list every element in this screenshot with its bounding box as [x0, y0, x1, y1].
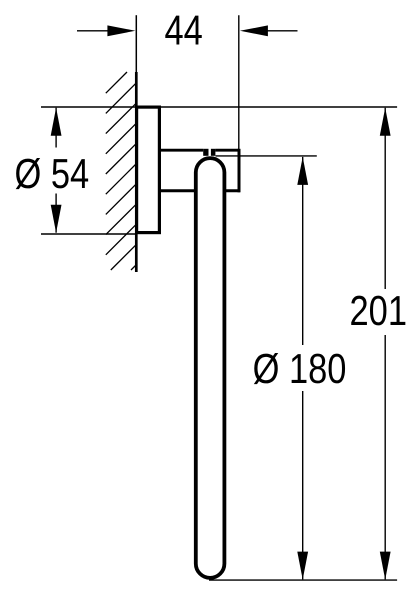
svg-text:Ø 54: Ø 54	[15, 150, 90, 197]
bottom reference line y=580	[209, 579, 397, 581]
wall plate	[137, 107, 160, 233]
arm top line	[159, 149, 203, 152]
text backgrounds	[12, 148, 90, 194]
ring top reference line y=156	[216, 155, 317, 157]
svg-text:Ø 180: Ø 180	[253, 345, 347, 392]
dim 44 left arrow	[77, 30, 112, 32]
dim line 201	[384, 108, 386, 580]
wall face line	[135, 15, 137, 72]
dim line Ø54	[55, 108, 57, 233]
arm right edge	[238, 149, 241, 193]
wall hatching	[106, 72, 136, 270]
pin tabs	[203, 149, 208, 156]
dim 44 right arrow	[265, 30, 298, 32]
svg-text:201: 201	[350, 287, 408, 334]
top reference line y=107	[41, 106, 397, 108]
bottom-left reference line y=233	[41, 233, 137, 235]
extension line x=239 (44 dim)	[238, 15, 240, 149]
svg-text:44: 44	[165, 7, 203, 54]
arm bottom line	[159, 189, 240, 192]
ring (side view capsule)	[196, 158, 225, 578]
dim line Ø180	[302, 157, 304, 580]
